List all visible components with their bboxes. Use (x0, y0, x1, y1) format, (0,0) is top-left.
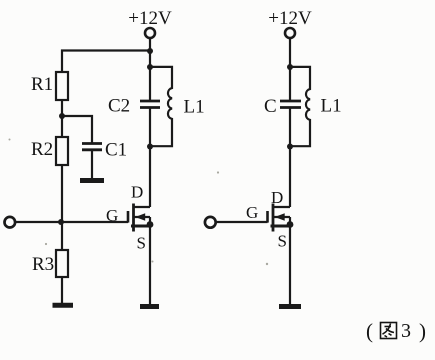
wire: node B to C1 top plate (62, 116, 92, 143)
wire: node G2 down to Q2 drain (289, 147, 291, 208)
svg-text:C1: C1 (105, 140, 127, 161)
wire: +12V terminal down to node F (289, 39, 291, 68)
node C junction dot (input / R2 / R3) (58, 219, 64, 225)
svg-text:S: S (137, 234, 146, 253)
svg-text:S: S (278, 232, 287, 251)
Q1 channel bar (132, 204, 135, 232)
inductor L1 (left stage) (150, 67, 172, 146)
svg-text:R1: R1 (31, 74, 53, 95)
svg-text:G: G (106, 206, 118, 225)
wire: node B to R2 top (61, 116, 63, 137)
wire: node E down to Q1 drain (149, 147, 151, 208)
svg-text:+12V: +12V (268, 8, 312, 29)
input terminal (left stage) (5, 217, 16, 228)
Q2 arrowhead (275, 213, 285, 220)
node F junction dot (tank top, right) (287, 64, 293, 70)
Q1 body arrow line (134, 216, 151, 218)
wire: Q2 source to ground (289, 226, 291, 305)
hanzi 图 drawn as strokes (381, 323, 397, 339)
svg-text:): ) (419, 319, 426, 343)
+12V terminal (left stage) (145, 28, 155, 38)
wire: C1 bottom plate to ground (91, 150, 93, 179)
resistor R3 (56, 250, 68, 277)
node A junction dot (supply to R1 branch) (147, 48, 153, 54)
svg-text:3: 3 (401, 320, 411, 342)
wire: C2 bottom plate to node E (149, 108, 151, 147)
wire: +12V terminal down to node A (149, 39, 151, 52)
wire: Q1 source to ground (149, 226, 151, 305)
svg-text:+12V: +12V (128, 8, 172, 29)
Q2 source-body junction (289, 217, 291, 226)
node G2 junction dot (tank bottom, right) (287, 144, 293, 150)
transistor Q2 (N-channel MOSFET) (246, 188, 293, 251)
ground under Q2 source (279, 304, 301, 309)
resistor R1 (56, 72, 68, 100)
svg-text:L1: L1 (184, 97, 205, 118)
Q2 body arrow line (273, 216, 290, 218)
capacitor C1 (82, 144, 102, 150)
wire: input terminal to gate of Q1 (15, 221, 128, 223)
svg-text:C: C (264, 96, 277, 117)
wire: node A left and down to R1 top (62, 51, 150, 73)
node D junction dot (tank top, left) (147, 64, 153, 70)
wire: C bottom plate to node G2 (289, 108, 291, 147)
ground under R3 (53, 303, 74, 308)
Q1 source-body junction (149, 217, 151, 226)
Q2 source-body dot (287, 221, 294, 228)
svg-text:R2: R2 (31, 139, 53, 160)
capacitor C2 (140, 101, 160, 108)
svg-text:D: D (131, 183, 143, 202)
node E junction dot (tank bottom, left) (147, 144, 153, 150)
svg-text:D: D (271, 188, 283, 207)
svg-text:G: G (246, 203, 258, 222)
scan speckles (faint) (9, 139, 269, 266)
wire: R2 bottom to node C (61, 165, 63, 222)
Q2 drain tick (273, 206, 290, 208)
wire: node C to R3 top (61, 222, 63, 250)
Q2 source tick (271, 225, 291, 228)
Q2 channel bar (272, 204, 275, 232)
wire: right input terminal to gate of Q2 (216, 221, 268, 223)
svg-text:L1: L1 (321, 96, 342, 117)
figure caption (图 3) (366, 319, 426, 343)
Q1 gate bar (127, 211, 130, 223)
ground under Q1 source (140, 304, 159, 309)
ground under C1 (80, 178, 104, 183)
Q1 source tick (131, 225, 150, 228)
wire: R3 bottom to ground (61, 277, 63, 304)
Q2 gate bar (266, 211, 269, 223)
transistor Q1 (N-channel MOSFET) (106, 183, 153, 253)
Q1 drain tick (134, 206, 151, 208)
Q1 source-body dot (147, 221, 154, 228)
wire: node F to C top plate (289, 67, 291, 101)
+12V terminal (right stage) (285, 28, 295, 38)
node B junction dot (R1/R2/C1) (59, 113, 65, 119)
wire: R1 bottom to node B (61, 100, 63, 116)
capacitor C (280, 101, 301, 108)
svg-text:R3: R3 (32, 254, 54, 275)
input terminal (right stage) (205, 217, 216, 228)
Q1 arrowhead (135, 213, 145, 220)
wire: node A to node D to C2 top plate (149, 51, 151, 101)
resistor R2 (56, 137, 68, 165)
svg-text:(: ( (366, 319, 373, 343)
inductor L1 (right stage) (290, 67, 310, 146)
svg-text:C2: C2 (108, 96, 130, 117)
